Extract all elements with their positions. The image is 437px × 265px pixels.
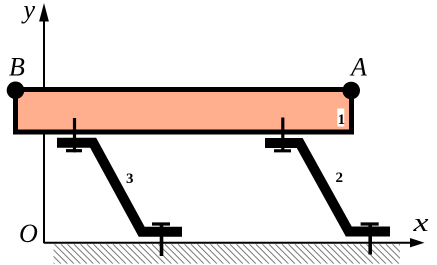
svg-text:3: 3 — [126, 171, 134, 187]
bar body 1 — [16, 90, 352, 133]
link 2 top pin crossbar — [274, 149, 291, 152]
svg-text:x: x — [412, 208, 429, 237]
y-axis wire — [43, 10, 45, 243]
link 3 bottom pin crossbar — [152, 222, 170, 225]
x-axis wire — [44, 242, 412, 244]
label 1 box — [337, 109, 344, 127]
svg-text:O: O — [19, 219, 38, 248]
x-axis arrowhead — [410, 238, 425, 247]
link 2 bottom pin stem — [368, 223, 372, 255]
link 2 top pin stem — [281, 118, 284, 153]
link 3 top pin stem — [73, 118, 76, 152]
svg-text:y: y — [21, 0, 36, 24]
link 3 top pin crossbar — [66, 149, 82, 152]
link 3 bottom pin stem — [160, 223, 164, 257]
link 2 bottom pin crossbar — [361, 222, 379, 225]
svg-text:B: B — [9, 53, 25, 82]
link 2 — [265, 143, 390, 232]
link 3 — [57, 143, 182, 232]
svg-text:A: A — [349, 53, 367, 82]
pin B circle — [7, 82, 25, 100]
svg-text:2: 2 — [336, 170, 344, 186]
pin A circle — [342, 82, 360, 100]
svg-text:1: 1 — [338, 112, 346, 128]
y-axis arrowhead — [39, 3, 49, 22]
